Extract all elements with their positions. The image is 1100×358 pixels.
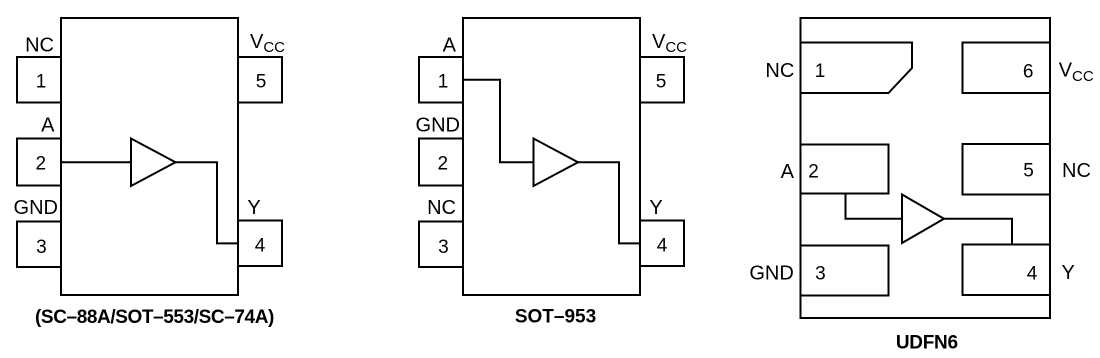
pin 4 box pkg2 <box>640 221 684 267</box>
svg-text:Y: Y <box>649 197 662 219</box>
svg-text:3: 3 <box>36 237 47 258</box>
op-amp buffer U3 <box>902 195 944 244</box>
op-amp buffer U1 <box>131 139 176 187</box>
svg-text:1: 1 <box>438 72 449 93</box>
pin 3 box pkg2 <box>419 222 463 268</box>
svg-text:4: 4 <box>657 236 668 257</box>
op-amp buffer U2 <box>534 139 579 187</box>
svg-text:GND: GND <box>749 263 793 285</box>
svg-text:Y: Y <box>1062 262 1075 284</box>
package body UDFN6 <box>801 18 1051 318</box>
pin 1 box <box>17 57 61 103</box>
pin 5 box <box>238 57 282 103</box>
pin 4 pad <box>963 245 1051 296</box>
svg-text:A: A <box>443 34 457 56</box>
svg-text:2: 2 <box>808 162 819 183</box>
wire pin2 to buffer input pkg3 <box>846 194 903 219</box>
pin 2 box pkg2 <box>419 139 463 186</box>
wire pin2 to buffer input <box>61 161 131 163</box>
svg-text:1: 1 <box>36 72 47 93</box>
svg-text:3: 3 <box>815 264 826 285</box>
svg-text:NC: NC <box>765 60 794 82</box>
wire buffer output to pin4 pkg3 <box>944 219 1012 245</box>
pin 1 box pkg2 <box>419 57 463 103</box>
svg-text:5: 5 <box>256 72 267 93</box>
svg-text:1: 1 <box>815 61 826 82</box>
svg-text:GND: GND <box>416 115 460 137</box>
pin 5 pad <box>963 144 1051 195</box>
svg-text:4: 4 <box>255 236 266 257</box>
svg-text:NC: NC <box>427 197 456 219</box>
wire buffer output to pin4 pkg2 <box>578 162 640 243</box>
svg-text:NC: NC <box>1062 160 1091 182</box>
svg-text:Y: Y <box>247 197 260 219</box>
pin 2 box <box>17 139 61 186</box>
svg-text:2: 2 <box>36 154 47 175</box>
svg-text:GND: GND <box>14 197 58 219</box>
svg-text:5: 5 <box>656 72 667 93</box>
pin 6 pad <box>963 43 1051 94</box>
svg-text:2: 2 <box>438 154 449 175</box>
svg-text:4: 4 <box>1027 264 1038 285</box>
package body SOT-953 <box>463 18 640 295</box>
wire buffer output to pin4 <box>176 162 239 243</box>
svg-text:3: 3 <box>438 237 449 258</box>
pin 1 pad (chamfered) <box>801 43 913 94</box>
svg-text:A: A <box>41 115 55 137</box>
wire pin1 to buffer input pkg2 <box>463 80 534 163</box>
svg-text:5: 5 <box>1023 161 1034 182</box>
svg-text:(SC–88A/SOT–553/SC–74A): (SC–88A/SOT–553/SC–74A) <box>35 307 274 328</box>
package body SC-88A <box>61 18 238 295</box>
svg-text:A: A <box>781 161 795 183</box>
svg-text:UDFN6: UDFN6 <box>896 332 958 353</box>
pin 4 box <box>238 221 282 267</box>
svg-text:NC: NC <box>25 34 54 56</box>
pin 2 pad <box>801 145 889 194</box>
pin 3 pad <box>801 246 889 296</box>
svg-text:SOT–953: SOT–953 <box>515 307 596 328</box>
pin 3 box <box>17 222 61 268</box>
svg-text:6: 6 <box>1023 62 1034 83</box>
pin 5 box pkg2 <box>640 57 684 103</box>
